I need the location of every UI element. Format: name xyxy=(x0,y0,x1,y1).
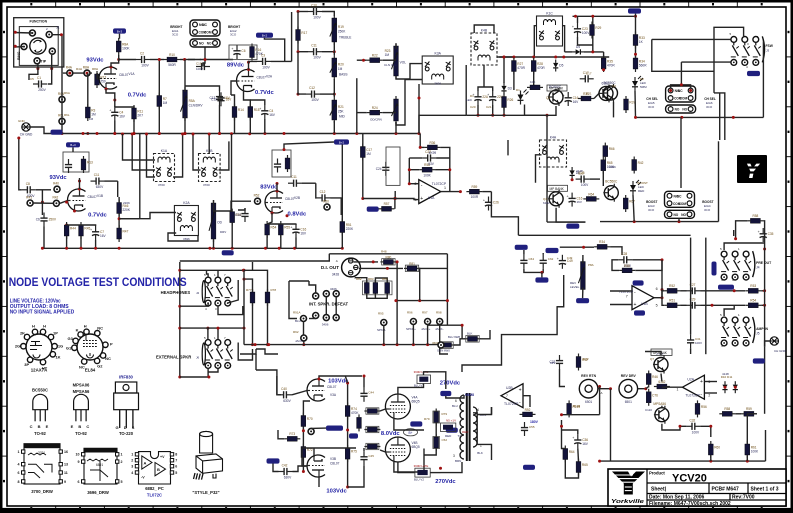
bus dot xyxy=(546,114,549,117)
svg-text:7: 7 xyxy=(626,294,628,298)
wire C3 vertical up xyxy=(291,12,293,61)
u1b out dot xyxy=(661,296,664,299)
svg-text:270Vdc: 270Vdc xyxy=(440,381,461,387)
wire c45 top xyxy=(363,448,365,451)
capacitor C11 mid xyxy=(308,44,322,60)
wire DI right xyxy=(419,267,447,269)
svg-text:R6L: R6L xyxy=(64,113,70,117)
label hp 4 xyxy=(205,307,207,311)
svg-text:REV RTN: REV RTN xyxy=(581,374,596,378)
svg-text:C32: C32 xyxy=(689,418,695,422)
net pill nfb xyxy=(267,458,280,463)
wire jack to chain xyxy=(52,35,62,73)
resistor ring R41 xyxy=(26,195,33,206)
input pin tip xyxy=(34,58,40,64)
svg-text:OD: OD xyxy=(217,220,222,224)
relay feed wire main xyxy=(139,134,141,219)
svg-text:CH GND: CH GND xyxy=(774,349,787,353)
capacitor C45 coupling xyxy=(360,451,367,465)
C19 label xyxy=(196,62,202,66)
BOOST sub right xyxy=(704,204,711,208)
potentiometer BASS xyxy=(330,55,344,80)
svg-text:+: + xyxy=(231,47,233,51)
svg-text:16V: 16V xyxy=(119,114,126,118)
svg-text:R77: R77 xyxy=(246,288,252,292)
svg-text:Q2: Q2 xyxy=(612,84,616,88)
svg-text:R47: R47 xyxy=(123,230,129,234)
diode D10 4148 xyxy=(722,381,727,393)
wire R36 right xyxy=(440,147,449,158)
svg-text:C1: C1 xyxy=(37,76,41,80)
r77 dots xyxy=(251,343,269,346)
svg-text:Y: Y xyxy=(744,157,762,184)
svg-text:R51: R51 xyxy=(669,299,675,303)
svg-text:5MM: 5MM xyxy=(640,85,647,89)
capacitor C9 supply xyxy=(65,159,72,173)
capacitor C32 100V xyxy=(686,418,700,434)
svg-text:3: 3 xyxy=(453,454,455,458)
resistor R64b 100K xyxy=(563,446,575,463)
label hp 7 xyxy=(224,273,226,277)
capacitor C11c xyxy=(288,175,302,187)
route B bus right side xyxy=(419,115,466,133)
svg-text:NC: NC xyxy=(678,89,683,93)
capacitor C8 input xyxy=(22,182,36,198)
svg-text:C40: C40 xyxy=(281,387,287,391)
net pill gnd row2 xyxy=(222,250,234,255)
8.0Vdc label xyxy=(381,431,400,437)
relay K4B xyxy=(471,29,497,66)
V4B label xyxy=(412,441,418,445)
U2A pin1 xyxy=(677,388,679,392)
wire fb down xyxy=(661,260,663,290)
wire D3 top xyxy=(503,57,505,83)
wire hp top stub xyxy=(207,270,209,277)
resistor R53b xyxy=(745,284,761,293)
svg-text:R6A: R6A xyxy=(64,91,70,95)
T1 GRN xyxy=(480,413,487,417)
wire rev drv right xyxy=(638,388,646,390)
wire gain pot top xyxy=(184,60,186,93)
wire ring down xyxy=(330,198,341,215)
capacitor C26 220U xyxy=(483,197,499,211)
routing wire top power xyxy=(277,376,281,395)
svg-text:COM: COM xyxy=(679,202,687,206)
T1 pin3 xyxy=(453,454,455,458)
svg-text:J4: J4 xyxy=(756,266,760,270)
svg-text:J5: J5 xyxy=(756,332,760,336)
capacitor C35 22U xyxy=(758,228,774,242)
triode V1B 12AX7 xyxy=(68,189,98,211)
label fn pins xyxy=(46,27,48,31)
wire boost com down xyxy=(680,117,682,188)
op-amp U2B reverb send xyxy=(501,384,523,408)
r row2 dot xyxy=(361,197,364,200)
function box label xyxy=(30,20,48,24)
svg-text:C17: C17 xyxy=(586,72,592,76)
label reverb r42 xyxy=(583,357,589,361)
svg-text:C25: C25 xyxy=(578,172,584,176)
wire cathode gnd xyxy=(114,121,116,134)
tube socket drawing EL84 xyxy=(66,324,113,373)
R86 label xyxy=(432,341,439,345)
resistor R51 220K xyxy=(340,219,354,236)
svg-text:K2A: K2A xyxy=(183,201,190,205)
svg-text:+: + xyxy=(483,199,485,203)
label hp 5 xyxy=(204,273,206,277)
wire pill link xyxy=(311,427,326,429)
wire c29 wires xyxy=(680,304,686,306)
wire V2B grid xyxy=(231,201,251,212)
wire to K2A xyxy=(119,218,140,220)
svg-text:+: + xyxy=(519,387,522,393)
T1 pin6 xyxy=(455,399,457,403)
label di a4 xyxy=(382,277,388,281)
relay K1C xyxy=(537,12,563,47)
wire fsw to chsel xyxy=(652,39,714,71)
connector CH SEL block xyxy=(666,86,696,113)
resistor R65 100K xyxy=(601,157,615,174)
wire bass cap left xyxy=(298,52,306,94)
resistor R59 100R xyxy=(466,185,482,199)
resistor R42b xyxy=(632,157,644,174)
DI res group box xyxy=(363,281,393,295)
svg-text:FUNCTION: FUNCTION xyxy=(30,20,48,24)
wire ps caps top2 xyxy=(542,253,544,255)
svg-text:+V: +V xyxy=(160,455,165,459)
wire C19 stub xyxy=(203,60,205,67)
supply dot xyxy=(283,148,286,151)
wire rev left vertical xyxy=(610,389,612,461)
wire od pot top stub xyxy=(213,200,215,203)
wire C14 wire xyxy=(238,208,245,210)
svg-text:+: + xyxy=(90,228,92,232)
BOOST label left xyxy=(646,200,657,204)
wire hp bottom xyxy=(180,303,208,306)
svg-text:OD/CRN: OD/CRN xyxy=(370,118,382,122)
wire down to preout xyxy=(719,93,721,136)
wire ampin feed xyxy=(562,414,600,416)
label preout 5 xyxy=(720,247,722,251)
note line voltage xyxy=(10,299,61,305)
U1B pin5 xyxy=(656,304,658,308)
defeat out dots xyxy=(418,299,449,302)
resistor R54 xyxy=(265,221,277,238)
capacitor C55 xyxy=(521,422,528,436)
wire ps caps bottom xyxy=(524,269,543,273)
v3a plate dot xyxy=(318,378,321,381)
wire DI top xyxy=(353,261,378,263)
svg-text:+: + xyxy=(109,109,111,113)
wire sense wires xyxy=(454,339,465,345)
wire u2b input wires xyxy=(491,407,493,415)
routing staircase xyxy=(462,275,564,372)
svg-text:R42: R42 xyxy=(583,357,589,361)
net pill top right xyxy=(628,8,641,13)
HEADPHONES label xyxy=(161,290,191,295)
label r30 val xyxy=(530,80,535,84)
svg-text:16V: 16V xyxy=(577,200,582,204)
svg-text:C20: C20 xyxy=(470,105,476,109)
capacitor C27 22U xyxy=(687,283,701,294)
connector REV DRV xyxy=(619,374,638,404)
wire R36 feed up xyxy=(419,134,421,148)
wire treble top xyxy=(298,11,308,13)
relay K3A xyxy=(422,52,453,85)
potentiometer OD VOLUME xyxy=(392,96,399,124)
wire boost bottom bus xyxy=(600,221,719,223)
svg-text:V1B: V1B xyxy=(97,194,103,198)
svg-text:K4B: K4B xyxy=(481,29,488,33)
net pill u1b top xyxy=(633,280,644,285)
U2A pin3 xyxy=(708,380,710,384)
headphones jack J2 xyxy=(196,291,200,295)
wire K3A left bot xyxy=(396,80,422,126)
net pill gnd left xyxy=(51,130,63,135)
resistor R64 xyxy=(583,192,599,201)
svg-text:3406: 3406 xyxy=(322,323,329,327)
wire c27 wires xyxy=(680,290,686,292)
svg-text:3701: 3701 xyxy=(38,451,45,455)
wire C13 xyxy=(185,86,220,91)
wire r50 right xyxy=(635,260,662,271)
wire grid node xyxy=(60,201,68,204)
svg-text:+: + xyxy=(557,257,559,261)
wire ext exit right xyxy=(240,349,256,354)
svg-text:6501: 6501 xyxy=(625,400,632,404)
svg-text:0.8Vdc: 0.8Vdc xyxy=(288,212,307,218)
resistor R16 470K xyxy=(250,44,264,61)
wire spkr bus xyxy=(244,344,446,346)
svg-text:R29: R29 xyxy=(595,26,601,30)
wire v3b grid c45 link xyxy=(302,448,356,466)
svg-text:100V: 100V xyxy=(692,430,700,434)
svg-text:K4A: K4A xyxy=(550,136,557,140)
wire ps caps top xyxy=(523,250,525,255)
V1B cathode dot xyxy=(65,210,76,227)
wire supply box xyxy=(72,147,74,152)
wire hp right rail xyxy=(228,280,239,303)
label ampin r149 xyxy=(573,404,581,408)
svg-text:630V: 630V xyxy=(283,399,291,403)
svg-text:100V: 100V xyxy=(581,183,589,187)
svg-text:BRN: BRN xyxy=(455,459,461,463)
U1B pin7 xyxy=(626,294,628,298)
wires V2A bottom xyxy=(234,118,236,134)
svg-text:R24: R24 xyxy=(372,106,378,110)
wire defeat out v xyxy=(419,268,421,301)
net pill preamp mid xyxy=(326,426,343,431)
svg-text:3CO: 3CO xyxy=(648,105,655,109)
wire chsel top xyxy=(680,62,682,85)
svg-text:LEVEL: LEVEL xyxy=(570,285,580,289)
routing wire pi input xyxy=(256,370,277,395)
svg-text:K1C: K1C xyxy=(546,12,553,16)
wire R10 right xyxy=(180,59,195,61)
svg-text:NO: NO xyxy=(207,42,212,46)
wire c31 down xyxy=(690,348,692,354)
wire V1B grid xyxy=(36,189,51,191)
CH SEL sub right xyxy=(706,101,713,105)
svg-text:R79: R79 xyxy=(442,412,448,416)
right rail vertical xyxy=(764,243,766,347)
wire int spkr wires xyxy=(303,322,305,335)
speaker ring 4 xyxy=(437,319,443,325)
wire od pot down xyxy=(213,239,215,248)
svg-text:2K7: 2K7 xyxy=(137,114,143,118)
wire c28 right xyxy=(632,259,662,261)
V1B label xyxy=(97,194,103,198)
svg-text:BC550C: BC550C xyxy=(605,180,618,184)
svg-text:6BQ5: 6BQ5 xyxy=(412,400,420,404)
footswitch jack J3 xyxy=(731,36,765,65)
resistor R15 xyxy=(248,104,260,121)
wire late v1 right xyxy=(424,372,446,389)
svg-text:83Vdc: 83Vdc xyxy=(260,185,278,191)
svg-text:2K: 2K xyxy=(20,331,25,336)
svg-text:5: 5 xyxy=(656,304,658,308)
svg-text:3CO: 3CO xyxy=(230,32,237,36)
wire r78 down xyxy=(267,303,269,345)
103Vdc top label xyxy=(328,379,349,385)
R77 label xyxy=(246,288,252,292)
svg-text:H: H xyxy=(43,324,46,329)
relay bottom bus xyxy=(636,116,764,118)
row2 right dot xyxy=(394,197,397,200)
diode D11 4148 xyxy=(733,381,738,393)
ground bus dots xyxy=(82,132,421,135)
wire r59 right up xyxy=(764,347,766,414)
control bus dots xyxy=(502,56,565,59)
net pill vertical preout xyxy=(712,262,717,276)
svg-text:R75: R75 xyxy=(351,450,357,454)
wire ext right xyxy=(238,343,252,361)
svg-text:H: H xyxy=(84,324,87,329)
label hp 1 xyxy=(214,273,216,277)
net pill rev gnd xyxy=(576,298,589,303)
label d6 4148 xyxy=(576,169,583,173)
resistor R33 1K xyxy=(633,32,645,49)
wire U1A out xyxy=(441,191,461,193)
U1A out dot xyxy=(459,190,462,193)
R7 dots xyxy=(158,58,161,135)
wire R11 gnd xyxy=(133,119,135,134)
wire fsw top bus xyxy=(652,38,731,40)
svg-text:IRF830: IRF830 xyxy=(119,374,133,379)
svg-text:R98: R98 xyxy=(436,311,442,315)
svg-text:R59: R59 xyxy=(746,407,752,411)
C44 label xyxy=(368,391,374,395)
svg-text:100V: 100V xyxy=(196,67,203,71)
grid stopper box2 xyxy=(366,426,379,432)
C45 label xyxy=(368,454,374,458)
route mid right xyxy=(603,52,605,58)
wire Q3 down xyxy=(613,102,615,117)
svg-text:470R: 470R xyxy=(537,66,545,70)
svg-text:1M: 1M xyxy=(338,67,343,71)
net pill PREAMP B+ xyxy=(256,33,273,38)
fb dots xyxy=(408,168,452,185)
wire K1A right xyxy=(173,134,183,177)
svg-text:C5: C5 xyxy=(30,77,34,81)
wire R3 xyxy=(87,73,89,107)
svg-text:270Vdc: 270Vdc xyxy=(435,479,456,485)
svg-text:NC: NC xyxy=(97,326,103,331)
wire caps top xyxy=(478,87,493,91)
DI resistor box xyxy=(382,259,395,265)
wire di feed2 xyxy=(446,254,448,325)
svg-text:Filename: M647-7V00sch.sch 200: Filename: M647-7V00sch.sch 2002 xyxy=(649,501,731,507)
wire cath down2 xyxy=(80,236,82,248)
R78 label xyxy=(271,288,277,292)
svg-text:C14: C14 xyxy=(235,213,241,217)
LED D7 boost xyxy=(630,180,641,195)
label di a2 xyxy=(356,277,362,281)
svg-text:4K99: 4K99 xyxy=(429,151,437,155)
wire R26 bottom xyxy=(503,108,505,116)
svg-text:B+2: B+2 xyxy=(339,140,345,144)
wire u2a inputs right2 xyxy=(704,392,717,394)
wire preout top r2 xyxy=(763,221,764,243)
label preout pins xyxy=(738,247,740,251)
defeat 3406 label xyxy=(322,323,329,327)
input jack function box xyxy=(14,18,64,67)
C20 label xyxy=(470,105,476,109)
270Vdc bottom xyxy=(435,479,456,485)
title block pcb number xyxy=(712,487,739,493)
svg-text:750: 750 xyxy=(100,80,106,84)
wire K4B coil down xyxy=(483,65,485,87)
resistor R6A ring xyxy=(58,92,65,103)
route footswitch chsel xyxy=(719,136,721,140)
resistor R17 tone xyxy=(296,27,308,44)
capacitor C12b xyxy=(317,190,331,202)
r77 top dot xyxy=(243,278,246,281)
svg-text:R52: R52 xyxy=(254,194,260,198)
wire di res tops xyxy=(375,278,387,283)
label k1a val xyxy=(158,183,165,187)
wire fsw right vertical xyxy=(762,42,764,118)
wire q reverb top xyxy=(645,352,661,356)
preout top dot xyxy=(734,237,737,240)
footswitch left dot xyxy=(634,53,637,56)
svg-text:GRN 6W0: GRN 6W0 xyxy=(437,349,450,353)
svg-text:TO-92: TO-92 xyxy=(75,431,87,436)
capacitor C29 22U xyxy=(687,298,701,309)
resistor R86 sense xyxy=(439,343,455,348)
wire r34 right xyxy=(610,247,622,255)
capacitor C44 coupling xyxy=(360,388,367,402)
resistor R58b preout xyxy=(747,214,763,223)
title block date xyxy=(649,495,705,501)
V2B plate dots xyxy=(276,182,279,193)
label preout 3 xyxy=(732,278,734,282)
svg-text:TL072CP: TL072CP xyxy=(685,394,700,398)
wire K1A coil stub xyxy=(123,134,156,160)
connector BOOST block xyxy=(665,191,695,218)
resistor R83 xyxy=(364,280,369,297)
svg-text:J1: J1 xyxy=(56,26,60,30)
svg-text:C8L07: C8L07 xyxy=(88,195,98,199)
svg-text:JACK: JACK xyxy=(295,339,303,343)
wire od vertical xyxy=(356,78,358,133)
EXTERNAL SPKR label xyxy=(156,355,191,360)
svg-text:UP BANK: UP BANK xyxy=(653,351,668,355)
svg-text:MPSA56: MPSA56 xyxy=(73,389,90,394)
jack wire dots xyxy=(178,269,245,379)
net pill row2 xyxy=(367,207,379,212)
relay control bus xyxy=(499,56,609,58)
